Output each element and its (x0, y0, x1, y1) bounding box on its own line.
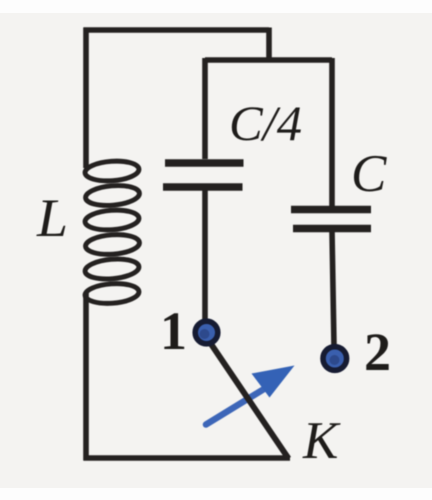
svg-text:K: K (302, 412, 341, 470)
wire middle branch upper (202, 58, 208, 159)
svg-text:C/4: C/4 (229, 95, 302, 151)
wire left vertical lower (83, 293, 89, 461)
node 1 contact (195, 321, 218, 344)
wire top horizontal (84, 27, 270, 33)
wire left vertical upper (83, 28, 89, 169)
arrow (switch throw direction) (206, 366, 295, 425)
svg-text:C: C (351, 145, 387, 203)
svg-text:L: L (36, 188, 68, 248)
inductor L (84, 159, 140, 305)
wire right branch lower (332, 231, 334, 346)
node 2 contact (323, 347, 347, 371)
wire middle branch lower (202, 190, 208, 322)
wire second horizontal (205, 57, 332, 63)
svg-text:1: 1 (160, 301, 187, 361)
svg-text:2: 2 (364, 322, 391, 382)
capacitor C/4 plates (163, 163, 244, 187)
wire right branch upper (329, 58, 335, 206)
switch K blade (209, 341, 289, 459)
capacitor C plates (291, 210, 371, 229)
wire step vertical (266, 28, 272, 63)
wire bottom horizontal (84, 455, 291, 461)
